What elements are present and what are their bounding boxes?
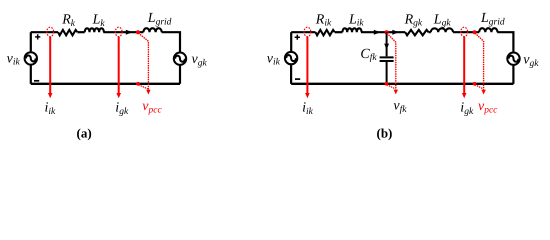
minus sign (a) [34, 80, 39, 82]
svg-text:vfk: vfk [393, 99, 407, 115]
wire left-bottom (a) [30, 65, 32, 83]
node dot bottom vpcc (a) [136, 82, 140, 86]
node PCC dot top (a) [136, 30, 140, 34]
source vgk circle (b) [507, 53, 519, 65]
svg-text:(a): (a) [77, 126, 92, 141]
measurement lead iik (b) [306, 37, 308, 94]
svg-text:vgk: vgk [523, 53, 539, 69]
current sensor ellipse igk (a) [115, 27, 122, 36]
vfk dotted lead (b) [387, 34, 395, 90]
wire left-top (a) [30, 32, 32, 51]
vpcc dotted lead (a) [139, 33, 149, 90]
inductor Lgk (b) [431, 28, 453, 32]
current direction arrow on top wire (a) [126, 30, 133, 35]
resistor Rgk (b) [405, 30, 428, 35]
wire top-right segment (b) [497, 32, 513, 52]
wire top-right segment (a) [162, 32, 180, 52]
svg-text:Lgk: Lgk [433, 12, 452, 28]
node dot vpcc bottom (b) [473, 82, 477, 86]
wire Rgk to Lgk (b) [429, 31, 431, 33]
svg-text:igk: igk [460, 101, 474, 117]
current sensor ellipse iik (a) [47, 27, 54, 36]
inductor Lk (a) [85, 28, 104, 32]
node dot vfk bottom (b) [385, 82, 389, 86]
bottom wire (a) [31, 83, 180, 85]
svg-text:igk: igk [115, 101, 129, 117]
wire right-bottom (b) [512, 66, 514, 84]
current sensor ellipse iik (b) [304, 27, 311, 36]
measurement lead igk (a) [118, 37, 120, 94]
capacitor Cfk plates (b) [380, 57, 394, 61]
arrow on capacitor lead (b) [384, 44, 389, 50]
current sensor ellipse igk (b) [461, 27, 468, 36]
svg-text:Rk: Rk [61, 13, 76, 29]
svg-text:vik: vik [267, 51, 281, 67]
resistor Rik (b) [316, 30, 335, 35]
measurement lead iik (a) [49, 37, 51, 94]
inductor Lgrid (b) [479, 28, 497, 32]
svg-text:Cfk: Cfk [360, 47, 377, 63]
wire Lgk to Lgrid (b) [453, 31, 479, 33]
wire Lk to Lgrid (a) [103, 31, 143, 33]
svg-text:vgk: vgk [192, 52, 208, 68]
sine symbol vik (a) [26, 55, 36, 61]
svg-text:vpcc: vpcc [478, 99, 498, 115]
vpcc dotted lead (b) [475, 34, 483, 91]
wire right-bottom (a) [179, 66, 181, 84]
arrowhead vpcc (b) [481, 90, 485, 95]
svg-text:Lgrid: Lgrid [147, 11, 172, 27]
measurement lead igk (b) [463, 37, 465, 94]
svg-text:vpcc: vpcc [142, 99, 162, 115]
capacitor top lead (b) [386, 32, 388, 56]
wire top-left segment (a) [31, 31, 58, 33]
svg-text:Rgk: Rgk [404, 12, 423, 28]
plus sign (a) [35, 34, 40, 39]
sine symbol vgk (b) [509, 56, 519, 62]
source vik circle (b) [285, 52, 297, 64]
wire Rik to Lik (b) [335, 31, 343, 33]
wire top-left segment (b) [291, 31, 315, 33]
resistor Rk (a) [58, 30, 77, 35]
sine symbol vgk (a) [175, 56, 185, 62]
svg-text:iik: iik [45, 101, 57, 117]
vpcc dotted diagonal bottom (a) [139, 85, 148, 89]
vfk dotted diagonal bottom (b) [387, 85, 395, 89]
wire between Rk and Lk (a) [78, 31, 85, 33]
arrowhead iik (a) [48, 93, 53, 98]
sine symbol vik (b) [286, 55, 296, 61]
svg-text:iik: iik [302, 101, 314, 117]
svg-text:(b): (b) [377, 126, 393, 141]
wire left-top (b) [290, 32, 292, 51]
capacitor bottom lead (b) [386, 62, 388, 84]
svg-text:Lik: Lik [348, 12, 364, 28]
arrowhead igk (a) [116, 93, 121, 98]
source vgk circle (a) [174, 53, 186, 65]
minus sign (b) [295, 78, 300, 80]
arrowhead iik (b) [305, 93, 310, 98]
arrowhead igk (b) [462, 93, 467, 98]
node PCC dot top (b) [473, 30, 477, 34]
current arrow before node (b) [374, 30, 381, 35]
wire Lik to Rgk (b) [361, 31, 405, 33]
svg-text:Rik: Rik [315, 12, 332, 28]
svg-text:vik: vik [7, 51, 21, 67]
source vik circle (a) [25, 52, 37, 64]
inductor Lgrid (a) [143, 28, 161, 32]
wire left-bottom (b) [290, 65, 292, 84]
node dot Cfk top (b) [385, 30, 389, 34]
vpcc dotted diagonal bottom (b) [475, 85, 483, 89]
plus sign (b) [295, 35, 300, 40]
inductor Lik (b) [342, 28, 361, 32]
current arrow after node (b) [392, 30, 399, 35]
svg-text:Lgrid: Lgrid [480, 11, 505, 27]
arrowhead vfk (b) [394, 90, 398, 95]
bottom wire (b) [291, 83, 513, 85]
arrowhead vpcc (a) [146, 90, 150, 95]
svg-text:Lk: Lk [92, 13, 106, 29]
